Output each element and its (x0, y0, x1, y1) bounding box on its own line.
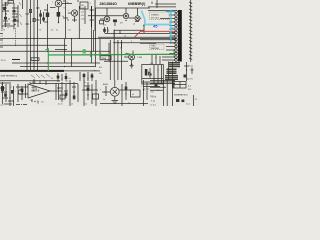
stub verticals above cluster (152, 55, 160, 65)
connector stubs (160, 11, 175, 60)
transistor Q3 (100, 8, 110, 22)
misc small parts top-mid (0, 10, 148, 104)
small parts x103-109 (103, 27, 109, 33)
transistor Q2 (68, 10, 78, 23)
transistor Q4 (88, 8, 129, 19)
wire y61 mid right (104, 61, 128, 62)
label right of Q7 (137, 57, 142, 59)
resistor marks between Q3 Q4 (113, 20, 123, 27)
middle long bus y38.5 (0, 38, 148, 40)
bottom-left component stack (0, 82, 27, 107)
feedback wire over op-amp (30, 84, 56, 101)
value labels right of Q2 (67, 2, 91, 21)
bottom band top wire (0, 79, 60, 85)
vertical bus wires x27-x38 (26, 0, 54, 70)
resistor blobs left cluster (1, 1, 22, 33)
wires into op-amp (15, 84, 39, 104)
wire x79 (78, 6, 80, 39)
left lower texts (99, 67, 102, 75)
part number text row (100, 2, 147, 6)
wire x47 (44, 4, 49, 50)
component box right of Q6 (122, 80, 147, 106)
ground under Q6 (112, 101, 119, 104)
right column labels (187, 66, 194, 81)
wire x65 (63, 0, 68, 39)
transistor Q5 (129, 8, 142, 21)
dark cluster below connector (150, 62, 180, 89)
verticals x110-121 (110, 30, 121, 80)
bottom right rows (150, 80, 175, 107)
blue net label 45 (153, 24, 158, 29)
top bus wire (95, 7, 150, 9)
right shield wavy wire (189, 0, 192, 62)
heavy dark band (0, 70, 100, 72)
label box under Q3 (100, 20, 107, 26)
bus y45 (0, 44, 67, 46)
connector pins (175, 10, 178, 61)
red wire (135, 31, 176, 37)
bus y51 (0, 50, 110, 52)
bottom middle cluster2 (82, 80, 99, 106)
lower component row under band (51, 70, 96, 81)
cyan highlight wires (141, 10, 176, 43)
label left of Q6 (100, 83, 109, 101)
mid lower bus y63 (12, 62, 100, 63)
resistor under Q1 (57, 12, 61, 23)
bottom right text row (174, 95, 198, 107)
sub-circuit box (142, 65, 172, 91)
wire x85 (84, 6, 86, 24)
connector body bar (178, 10, 182, 62)
bottom right box (173, 82, 192, 92)
dashed box TIMING label (150, 12, 170, 20)
transistor Q1 (50, 0, 78, 12)
left lower small parts (1, 45, 49, 62)
bus y49.5 short (55, 48, 67, 50)
dashed node wire x15 (1, 28, 16, 45)
heavy bus x91-95 (90, 0, 96, 31)
op-amp U1 (28, 82, 62, 104)
top right stub (148, 0, 176, 10)
transistor Q7 (124, 51, 135, 69)
green component blob (83, 49, 130, 58)
dashed box 7481 label (150, 44, 165, 50)
bottom middle parts (56, 80, 78, 106)
green highlight path (45, 48, 174, 71)
transistor Q6 (104, 80, 132, 100)
mid lower bus y66.5 (20, 66, 96, 67)
wires right of connector cluster (184, 62, 190, 81)
left component cluster wires (2, 0, 23, 29)
mid lower verticals (56, 8, 109, 67)
bottom-left text row (1, 74, 51, 78)
mid right wires to connector (98, 25, 176, 49)
label MH box (100, 56, 111, 60)
